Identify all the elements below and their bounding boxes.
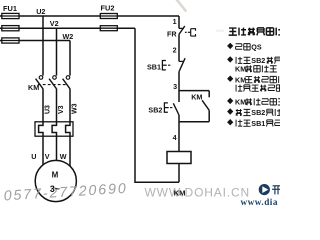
svg-text:U2: U2 [36,7,45,16]
svg-text:QS: QS [251,43,262,52]
svg-text:SB2: SB2 [251,108,265,117]
svg-text:V3: V3 [58,105,65,114]
svg-text:U: U [31,152,36,161]
svg-text:3~: 3~ [50,184,60,194]
svg-text:www.dia: www.dia [241,197,278,207]
svg-text:FU1: FU1 [3,4,17,13]
svg-text:KM: KM [191,93,202,102]
svg-text:W: W [60,152,67,161]
svg-text:SB2: SB2 [148,105,162,114]
svg-text:V: V [45,152,50,161]
svg-text:2: 2 [173,46,177,55]
svg-text:WWW.DOHAI.CN: WWW.DOHAI.CN [145,186,251,200]
svg-text:3: 3 [173,82,177,91]
svg-text:SB2: SB2 [251,56,265,65]
svg-text:M: M [52,170,59,179]
svg-text:KM: KM [28,83,39,92]
svg-text:KM: KM [235,75,246,84]
svg-text:FU2: FU2 [101,4,115,13]
svg-text:KM: KM [235,98,246,107]
svg-text:W2: W2 [63,32,74,41]
svg-text:KM: KM [235,65,246,74]
svg-text:SB1: SB1 [147,63,161,72]
svg-text:W3: W3 [72,103,79,114]
svg-text:4: 4 [173,133,177,142]
svg-text:1: 1 [173,17,177,26]
svg-text:FR: FR [167,30,177,39]
svg-text:V2: V2 [50,19,59,28]
svg-text:KM: KM [174,188,186,197]
svg-text:SB1: SB1 [251,119,265,128]
svg-text:U3: U3 [45,105,52,114]
